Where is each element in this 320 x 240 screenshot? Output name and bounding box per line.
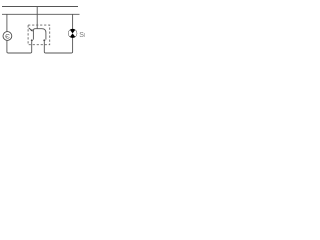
contact dot right	[43, 39, 45, 41]
wire left drop to source E	[6, 14, 8, 31]
plug / button dome inside box	[33, 29, 46, 40]
wire rail 2 drop to lamp top	[72, 14, 74, 29]
wire source E bottom to switch left terminal	[7, 40, 32, 53]
wire top rail 2	[2, 13, 80, 15]
EMF source E (circle)	[3, 32, 12, 41]
lamp (black circle with white sectors)	[68, 29, 77, 38]
contact dot left	[31, 39, 33, 41]
wire switch right terminal to lamp bottom	[44, 38, 72, 53]
actuation arrow	[29, 28, 33, 31]
wire middle drop from rail 1 into dashed box	[36, 7, 38, 29]
wire top rail 1	[2, 6, 78, 8]
svg-text:Є: Є	[5, 33, 10, 40]
svg-text:Sl: Sl	[79, 32, 85, 39]
dashed enclosure box	[28, 25, 50, 45]
